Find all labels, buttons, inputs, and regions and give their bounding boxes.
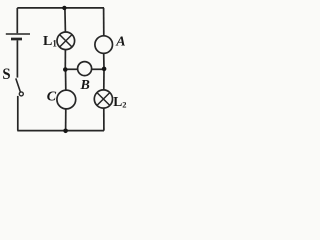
voltmeter C (57, 90, 76, 109)
wire right vertical (node to L2) (103, 69, 105, 90)
svg-text:L2: L2 (113, 94, 126, 109)
wire right vertical lower (L2 to bottom) (103, 108, 105, 131)
node junction bottom (63, 129, 68, 134)
wire middle vertical lower (C to bottom) (65, 109, 67, 131)
switch S pivot contact (19, 92, 23, 96)
battery long plate (+) (6, 33, 30, 35)
wire top horizontal (17, 7, 104, 9)
lamp L1 (57, 32, 75, 50)
node junction left of B (63, 67, 68, 72)
svg-text:B: B (80, 78, 90, 93)
wire right vertical upper (corner to A) (103, 8, 105, 36)
wire middle vertical (node to C) (65, 69, 67, 90)
svg-text:C: C (47, 90, 57, 105)
wire left vertical middle (battery to switch) (16, 40, 18, 77)
svg-text:S: S (2, 66, 10, 83)
wire bottom horizontal (17, 130, 104, 132)
wire middle vertical (L1 to node) (64, 50, 66, 70)
wire branch B horizontal left (65, 68, 77, 70)
battery short plate (-) (11, 38, 22, 41)
switch S blade (16, 78, 21, 92)
svg-text:A: A (115, 35, 125, 50)
wire right vertical (A to node) (103, 53, 105, 69)
wire branch B horizontal right (92, 68, 104, 70)
wire left vertical upper (battery top lead) (16, 8, 18, 33)
lamp L2 cross (97, 93, 110, 106)
ammeter A (95, 36, 113, 54)
wire middle vertical upper (junction to L1) (64, 8, 67, 32)
wire left vertical lower (switch to bottom) (17, 96, 19, 131)
node junction top (62, 6, 66, 10)
lamp L1 cross (60, 35, 72, 47)
node junction right of B (102, 67, 107, 72)
lamp L2 (94, 90, 112, 108)
meter B (78, 62, 92, 76)
svg-text:L1: L1 (43, 34, 57, 49)
